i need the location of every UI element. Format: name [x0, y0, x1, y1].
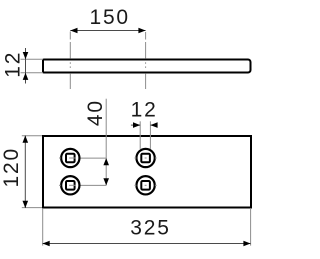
arrow 150 left	[70, 28, 77, 34]
extension line 325 left	[42, 209, 44, 246]
hole H4 square	[141, 181, 150, 190]
svg-text:40: 40	[84, 99, 107, 126]
svg-text:12: 12	[131, 99, 158, 122]
center leader upper-left hole to 40 dim	[81, 157, 107, 159]
svg-text:12: 12	[1, 51, 24, 78]
hole H2 lower-left circle	[61, 176, 79, 194]
extension line plate bottom (dim 12 side)	[21, 72, 44, 74]
hole H1 left mark	[59, 157, 61, 159]
hole H3 center dash	[145, 157, 147, 159]
center line right column (top view)	[145, 32, 147, 89]
hole H2 left mark	[59, 184, 61, 186]
arrow 150 right	[138, 28, 145, 34]
hole H1 square	[66, 154, 75, 163]
dimension line 12 hole left tail	[131, 124, 140, 126]
arrow 120 bottom (pointing down)	[23, 201, 29, 208]
dimension line 150	[70, 30, 145, 32]
svg-text:150: 150	[89, 6, 129, 29]
arrow 40 bottom (pointing down)	[103, 178, 109, 185]
dimension line 120	[24, 136, 26, 209]
extension line 12 hole left	[139, 121, 141, 149]
hole H4 side marks	[135, 184, 137, 186]
svg-text:120: 120	[0, 147, 23, 187]
dimension line 40	[105, 99, 107, 186]
hole H3 square	[141, 154, 150, 163]
arrow 12 bottom (pointing up)	[23, 73, 29, 80]
arrow 12 top (pointing down)	[23, 52, 29, 59]
extension line plate top (dim 12 side)	[21, 58, 44, 60]
side view plate (top)	[43, 60, 251, 73]
extension line 120 bottom	[22, 207, 42, 209]
arrow 40 top (pointing up)	[103, 158, 109, 165]
hole H4 center dash	[145, 184, 147, 186]
extension line 120 top	[22, 135, 42, 137]
hole H2 square	[66, 181, 75, 190]
dimension line 12 hole right tail	[150, 124, 155, 126]
extension line 325 right	[250, 209, 252, 246]
hole H3 upper-right circle	[136, 149, 154, 167]
center line left column (top view)	[69, 32, 71, 90]
arrow 325 right	[243, 241, 250, 247]
dimension line 12 (plate thickness)	[25, 48, 27, 84]
hole H1 upper-left circle	[61, 149, 79, 167]
extension line 12 hole right	[149, 121, 151, 149]
center leader lower-left hole to 40 dim	[81, 184, 107, 186]
arrow 120 top (pointing up)	[23, 136, 29, 143]
arrow 325 left	[43, 241, 50, 247]
arrow 12 hole left (pointing right)	[133, 122, 140, 128]
svg-text:325: 325	[130, 216, 170, 239]
dimension line 325	[43, 243, 251, 245]
front view rectangle	[43, 136, 251, 208]
hole H3 side marks	[135, 157, 137, 159]
hole H1 center dash	[69, 157, 76, 159]
hole H4 lower-right circle	[136, 176, 154, 194]
hole H2 center dash	[69, 184, 76, 186]
arrow 12 hole right (pointing left)	[150, 122, 157, 128]
